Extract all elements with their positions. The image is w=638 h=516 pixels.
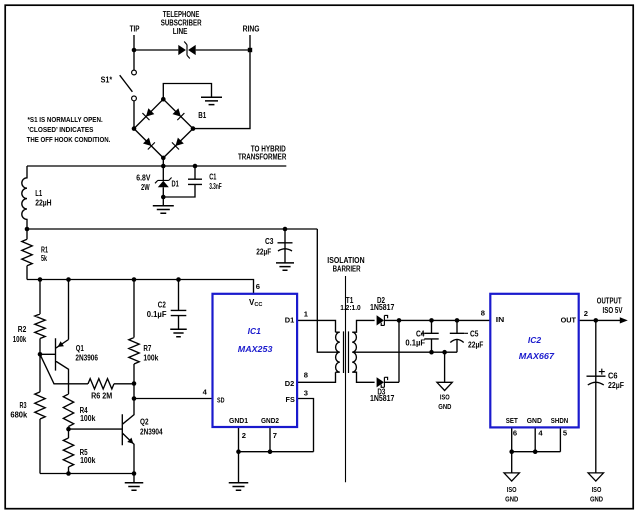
svg-text:R6 2M: R6 2M — [91, 392, 112, 401]
svg-text:22µF: 22µF — [608, 381, 624, 390]
svg-text:IC1: IC1 — [248, 327, 262, 336]
svg-text:100k: 100k — [80, 456, 96, 465]
svg-text:IN: IN — [496, 315, 505, 324]
svg-text:2: 2 — [242, 431, 246, 440]
svg-text:OUT: OUT — [561, 316, 577, 325]
svg-text:ISO: ISO — [507, 485, 517, 494]
svg-text:C1: C1 — [209, 172, 217, 181]
svg-text:MAX253: MAX253 — [238, 345, 273, 354]
svg-text:1.2:1.0: 1.2:1.0 — [340, 303, 361, 312]
svg-text:5k: 5k — [41, 254, 47, 263]
svg-text:L1: L1 — [35, 189, 42, 198]
svg-text:B1: B1 — [198, 111, 206, 120]
svg-text:7: 7 — [273, 431, 277, 440]
svg-text:R2: R2 — [18, 325, 27, 334]
svg-text:S1*: S1* — [101, 76, 113, 85]
svg-text:SHDN: SHDN — [551, 416, 568, 425]
svg-text:LINE: LINE — [173, 27, 188, 36]
svg-text:D1: D1 — [285, 316, 295, 325]
svg-text:22µF: 22µF — [468, 340, 483, 349]
svg-text:6: 6 — [256, 282, 260, 291]
svg-text:GND2: GND2 — [261, 416, 279, 425]
svg-text:1N5817: 1N5817 — [370, 394, 395, 403]
svg-text:3.3nF: 3.3nF — [209, 182, 222, 191]
svg-text:GND: GND — [527, 416, 543, 425]
svg-text:0.1µF: 0.1µF — [405, 339, 425, 348]
svg-text:GND1: GND1 — [229, 416, 249, 425]
svg-text:C4: C4 — [416, 330, 425, 339]
svg-text:2: 2 — [584, 309, 588, 318]
svg-text:8: 8 — [481, 309, 485, 318]
svg-text:C2: C2 — [158, 301, 166, 310]
svg-text:GND: GND — [590, 495, 604, 504]
svg-text:OUTPUT: OUTPUT — [597, 296, 622, 305]
svg-text:SD: SD — [217, 396, 225, 405]
svg-text:C6: C6 — [608, 371, 618, 380]
svg-text:ISO: ISO — [440, 392, 450, 401]
svg-text:6.8V: 6.8V — [136, 173, 151, 182]
svg-text:RING: RING — [243, 24, 260, 33]
svg-text:C3: C3 — [265, 237, 274, 246]
svg-text:GND: GND — [438, 402, 452, 411]
svg-text:2N3906: 2N3906 — [75, 353, 98, 362]
svg-text:2W: 2W — [141, 183, 150, 192]
svg-text:100k: 100k — [13, 335, 27, 344]
svg-text:1N5817: 1N5817 — [370, 303, 395, 312]
svg-text:Q2: Q2 — [140, 417, 149, 426]
svg-text:’CLOSED’ INDICATES: ’CLOSED’ INDICATES — [28, 125, 94, 134]
svg-text:R3: R3 — [20, 401, 27, 410]
svg-text:C5: C5 — [470, 330, 479, 339]
svg-text:3: 3 — [304, 388, 308, 397]
svg-text:THE OFF HOOK CONDITION.: THE OFF HOOK CONDITION. — [27, 135, 111, 144]
svg-text:100k: 100k — [80, 414, 96, 423]
svg-text:*S1 IS NORMALLY OPEN.: *S1 IS NORMALLY OPEN. — [28, 115, 103, 124]
svg-text:8: 8 — [304, 371, 308, 380]
svg-text:IC2: IC2 — [528, 336, 542, 345]
svg-text:100k: 100k — [143, 353, 158, 362]
svg-text:0.1µF: 0.1µF — [147, 310, 167, 319]
svg-text:R7: R7 — [143, 344, 151, 353]
svg-text:FS: FS — [286, 395, 295, 404]
svg-text:SET: SET — [506, 416, 518, 425]
svg-text:2N3904: 2N3904 — [140, 427, 163, 436]
svg-text:6: 6 — [513, 429, 517, 438]
svg-text:D1: D1 — [172, 180, 180, 189]
svg-text:Q1: Q1 — [76, 344, 84, 353]
svg-text:BARRIER: BARRIER — [333, 265, 361, 274]
svg-text:ISO 5V: ISO 5V — [603, 306, 624, 315]
svg-text:680k: 680k — [10, 411, 27, 420]
svg-text:ISO: ISO — [592, 485, 602, 494]
svg-text:GND: GND — [505, 495, 519, 504]
svg-text:TIP: TIP — [130, 24, 140, 33]
svg-text:D2: D2 — [285, 379, 295, 388]
svg-text:MAX667: MAX667 — [519, 352, 555, 361]
svg-text:22µH: 22µH — [35, 198, 52, 207]
svg-text:TRANSFORMER: TRANSFORMER — [238, 152, 286, 161]
svg-text:22µF: 22µF — [256, 247, 271, 256]
